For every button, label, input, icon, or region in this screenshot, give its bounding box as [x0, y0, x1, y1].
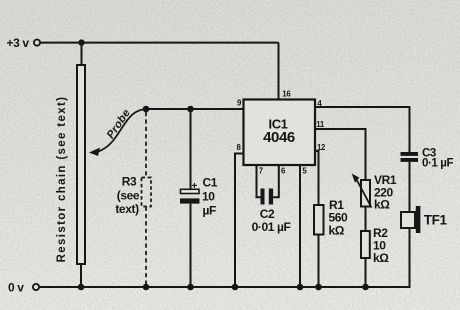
- svg-text:TF1: TF1: [424, 213, 448, 228]
- svg-text:+3 v: +3 v: [7, 36, 30, 50]
- potentiometer VR1 arrow: [357, 180, 372, 208]
- wire probe arrow curve: [98, 109, 147, 152]
- capacitor C3 bottom plate: [401, 158, 419, 162]
- svg-text:16: 16: [282, 90, 291, 99]
- svg-text:kΩ: kΩ: [329, 224, 345, 238]
- terminal 0V: [33, 284, 39, 290]
- wire top rail: [40, 42, 278, 44]
- wire C1 top: [190, 109, 192, 189]
- transducer TF1 bar: [416, 206, 421, 233]
- svg-text:10: 10: [202, 189, 215, 203]
- svg-text:12: 12: [317, 143, 326, 152]
- svg-text:(see: (see: [117, 189, 140, 203]
- svg-text:560: 560: [329, 211, 349, 225]
- potentiometer VR1 body: [361, 180, 370, 207]
- svg-text:C2: C2: [260, 207, 275, 221]
- node rail dots: [78, 284, 369, 291]
- svg-text:kΩ: kΩ: [374, 197, 390, 211]
- svg-text:0·01 µF: 0·01 µF: [252, 220, 291, 234]
- svg-text:µF: µF: [203, 204, 217, 218]
- node top junction: [78, 39, 84, 45]
- capacitor C2 right plate: [269, 189, 273, 205]
- capacitor C1 top plate: [181, 189, 200, 193]
- resistor R3 dashed body: [142, 178, 152, 207]
- capacitor C2 left plate: [261, 189, 265, 205]
- transducer TF1 box: [401, 212, 415, 228]
- probe arrowhead: [89, 148, 100, 156]
- wire junction to resistor chain: [81, 43, 83, 65]
- svg-text:4046: 4046: [263, 129, 295, 146]
- resistor chain RV (see text): [77, 65, 85, 264]
- wire pin 6: [273, 165, 279, 197]
- resistor R2 body: [361, 231, 370, 258]
- svg-text:R3: R3: [122, 175, 137, 189]
- wire R2 to rail: [365, 258, 367, 287]
- svg-text:7: 7: [259, 166, 263, 175]
- wire pin 8: [235, 154, 244, 288]
- wire C1 bottom: [190, 204, 192, 287]
- wire pin 4 to C3: [315, 107, 410, 152]
- terminal +3V: [34, 40, 40, 46]
- svg-text:11: 11: [316, 120, 325, 129]
- svg-text:kΩ: kΩ: [373, 251, 389, 265]
- svg-text:+: +: [192, 181, 198, 192]
- wire pin 5: [299, 165, 301, 287]
- wire R3 dashed bottom: [145, 207, 147, 285]
- node probe junction: [143, 106, 150, 113]
- wire TF1 to rail: [409, 228, 411, 287]
- resistor R1 body: [314, 205, 324, 235]
- capacitor C3 top plate: [401, 152, 419, 156]
- capacitor C1 bottom plate: [180, 198, 200, 203]
- wire R1 to rail: [318, 235, 320, 288]
- pin numbers: [237, 90, 326, 176]
- node C1 junction: [187, 106, 194, 113]
- wire VR1 to R2: [365, 207, 367, 232]
- wire pin 11 to VR1: [315, 129, 366, 180]
- svg-text:text): text): [115, 202, 139, 216]
- wire pin16 drop: [278, 43, 280, 100]
- wire resistor chain to 0V rail: [80, 264, 82, 287]
- wire C3 to TF1: [409, 162, 411, 212]
- wire pin 7: [257, 165, 261, 197]
- svg-text:0·1 µF: 0·1 µF: [422, 157, 453, 169]
- op-amp IC1 box: [244, 100, 316, 166]
- wire probe line to pin 9: [146, 108, 244, 110]
- wire R3 dashed top: [145, 112, 147, 178]
- wire bottom rail: [39, 280, 409, 287]
- svg-text:Resistor chain (see text): Resistor chain (see text): [56, 96, 68, 263]
- svg-text:C1: C1: [203, 176, 218, 190]
- svg-text:0 v: 0 v: [8, 281, 24, 295]
- wire pin 12 to R1: [315, 151, 319, 205]
